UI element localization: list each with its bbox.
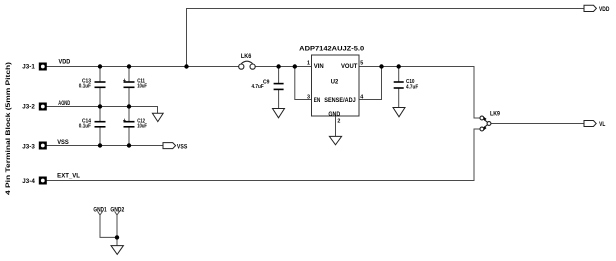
svg-text:J3-4: J3-4	[22, 179, 35, 185]
svg-text:4.7uF: 4.7uF	[252, 84, 265, 90]
svg-text:2: 2	[337, 119, 340, 125]
svg-text:AGND: AGND	[58, 101, 70, 107]
svg-text:GND2: GND2	[110, 208, 124, 214]
svg-text:1: 1	[307, 61, 310, 67]
svg-text:VSS: VSS	[177, 145, 187, 151]
svg-text:VIN: VIN	[314, 64, 324, 70]
svg-text:GND1: GND1	[93, 208, 107, 214]
svg-text:0.1uF: 0.1uF	[79, 124, 92, 130]
svg-text:4 Pin Terminal Block (5mm Pitc: 4 Pin Terminal Block (5mm Pitch)	[5, 62, 12, 195]
svg-text:LK9: LK9	[490, 112, 501, 118]
svg-text:VOUT: VOUT	[341, 64, 358, 70]
svg-text:J3-1: J3-1	[22, 65, 35, 71]
svg-text:J3-3: J3-3	[22, 144, 35, 150]
svg-text:10uF: 10uF	[137, 84, 147, 90]
svg-text:GND: GND	[328, 112, 340, 118]
svg-text:VL: VL	[599, 122, 605, 128]
svg-text:VDD: VDD	[59, 60, 71, 66]
svg-text:VDD: VDD	[599, 7, 610, 13]
svg-text:EN: EN	[314, 98, 321, 104]
svg-text:10uF: 10uF	[137, 124, 147, 130]
svg-text:ADP7142AUJZ-5.0: ADP7142AUJZ-5.0	[299, 46, 365, 53]
svg-text:VSS: VSS	[57, 140, 69, 146]
svg-text:SENSE/ADJ: SENSE/ADJ	[324, 98, 355, 104]
svg-text:5: 5	[360, 61, 363, 67]
svg-text:4.7uF: 4.7uF	[406, 84, 419, 90]
svg-text:LK6: LK6	[241, 54, 252, 60]
svg-text:+: +	[123, 78, 127, 84]
svg-text:J3-2: J3-2	[22, 105, 35, 111]
svg-text:U2: U2	[331, 79, 339, 85]
svg-text:EXT_VL: EXT_VL	[57, 174, 80, 180]
svg-text:4: 4	[360, 94, 363, 100]
svg-text:3: 3	[307, 94, 310, 100]
svg-text:C9: C9	[263, 79, 270, 85]
svg-text:0.1uF: 0.1uF	[79, 84, 92, 90]
